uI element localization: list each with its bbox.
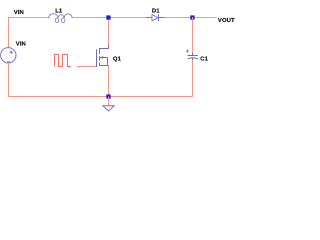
transistor Q1 arrowhead (101, 56, 104, 58)
wire capacitor bottom vertical (192, 60, 194, 97)
svg-text:VOUT: VOUT (218, 18, 235, 24)
diode D1 triangle (152, 15, 158, 21)
wire gate lead (76, 66, 96, 68)
wire drain vertical (108, 17, 110, 45)
ground symbol (103, 106, 114, 111)
source plus sign (9, 50, 13, 54)
wire capacitor top vertical (192, 17, 194, 53)
transistor Q1 source bar (99, 65, 109, 67)
capacitor C1 top plate (188, 55, 198, 57)
svg-text:VIN: VIN (16, 41, 26, 47)
svg-text:D1: D1 (152, 9, 160, 15)
transistor Q1 drain bar and lead (99, 45, 108, 49)
diode D1 cathode lead (159, 17, 165, 19)
capacitor C1 plus sign (186, 49, 189, 52)
transistor Q1 body arrow line (100, 58, 108, 66)
capacitor C1 bottom plate (188, 58, 198, 59)
wire left vertical lower (8, 63, 10, 97)
diode D1 anode lead (146, 17, 152, 19)
node dot output junction (190, 15, 194, 19)
node dot drain junction (106, 15, 110, 19)
svg-text:VIN: VIN (14, 10, 24, 16)
pulse waveform symbol (55, 55, 72, 67)
inductor L1 loop 1 (55, 18, 59, 23)
capacitor C1 bottom stub (192, 58, 194, 60)
wire ground stub (108, 97, 110, 106)
wire top rail left segment (8, 17, 49, 19)
transistor Q1 gate plate (96, 49, 98, 67)
wire bottom rail (8, 96, 193, 98)
inductor L1 loop 2 (61, 18, 65, 23)
wire left vertical upper (8, 17, 10, 48)
svg-text:L1: L1 (55, 9, 63, 15)
wire source vertical (108, 66, 110, 98)
inductor L1 humps (49, 14, 73, 19)
source minus sign (7, 61, 10, 63)
capacitor C1 top stub (192, 53, 194, 56)
svg-text:Q1: Q1 (113, 57, 122, 63)
svg-text:C1: C1 (200, 56, 208, 62)
source V1 circle (1, 48, 16, 63)
wire top rail middle segment (72, 17, 146, 19)
node dot ground junction (106, 94, 110, 98)
wire top rail right segment (165, 17, 217, 19)
transistor Q1 channel segments (99, 48, 101, 66)
diode D1 cathode bar (158, 14, 160, 21)
